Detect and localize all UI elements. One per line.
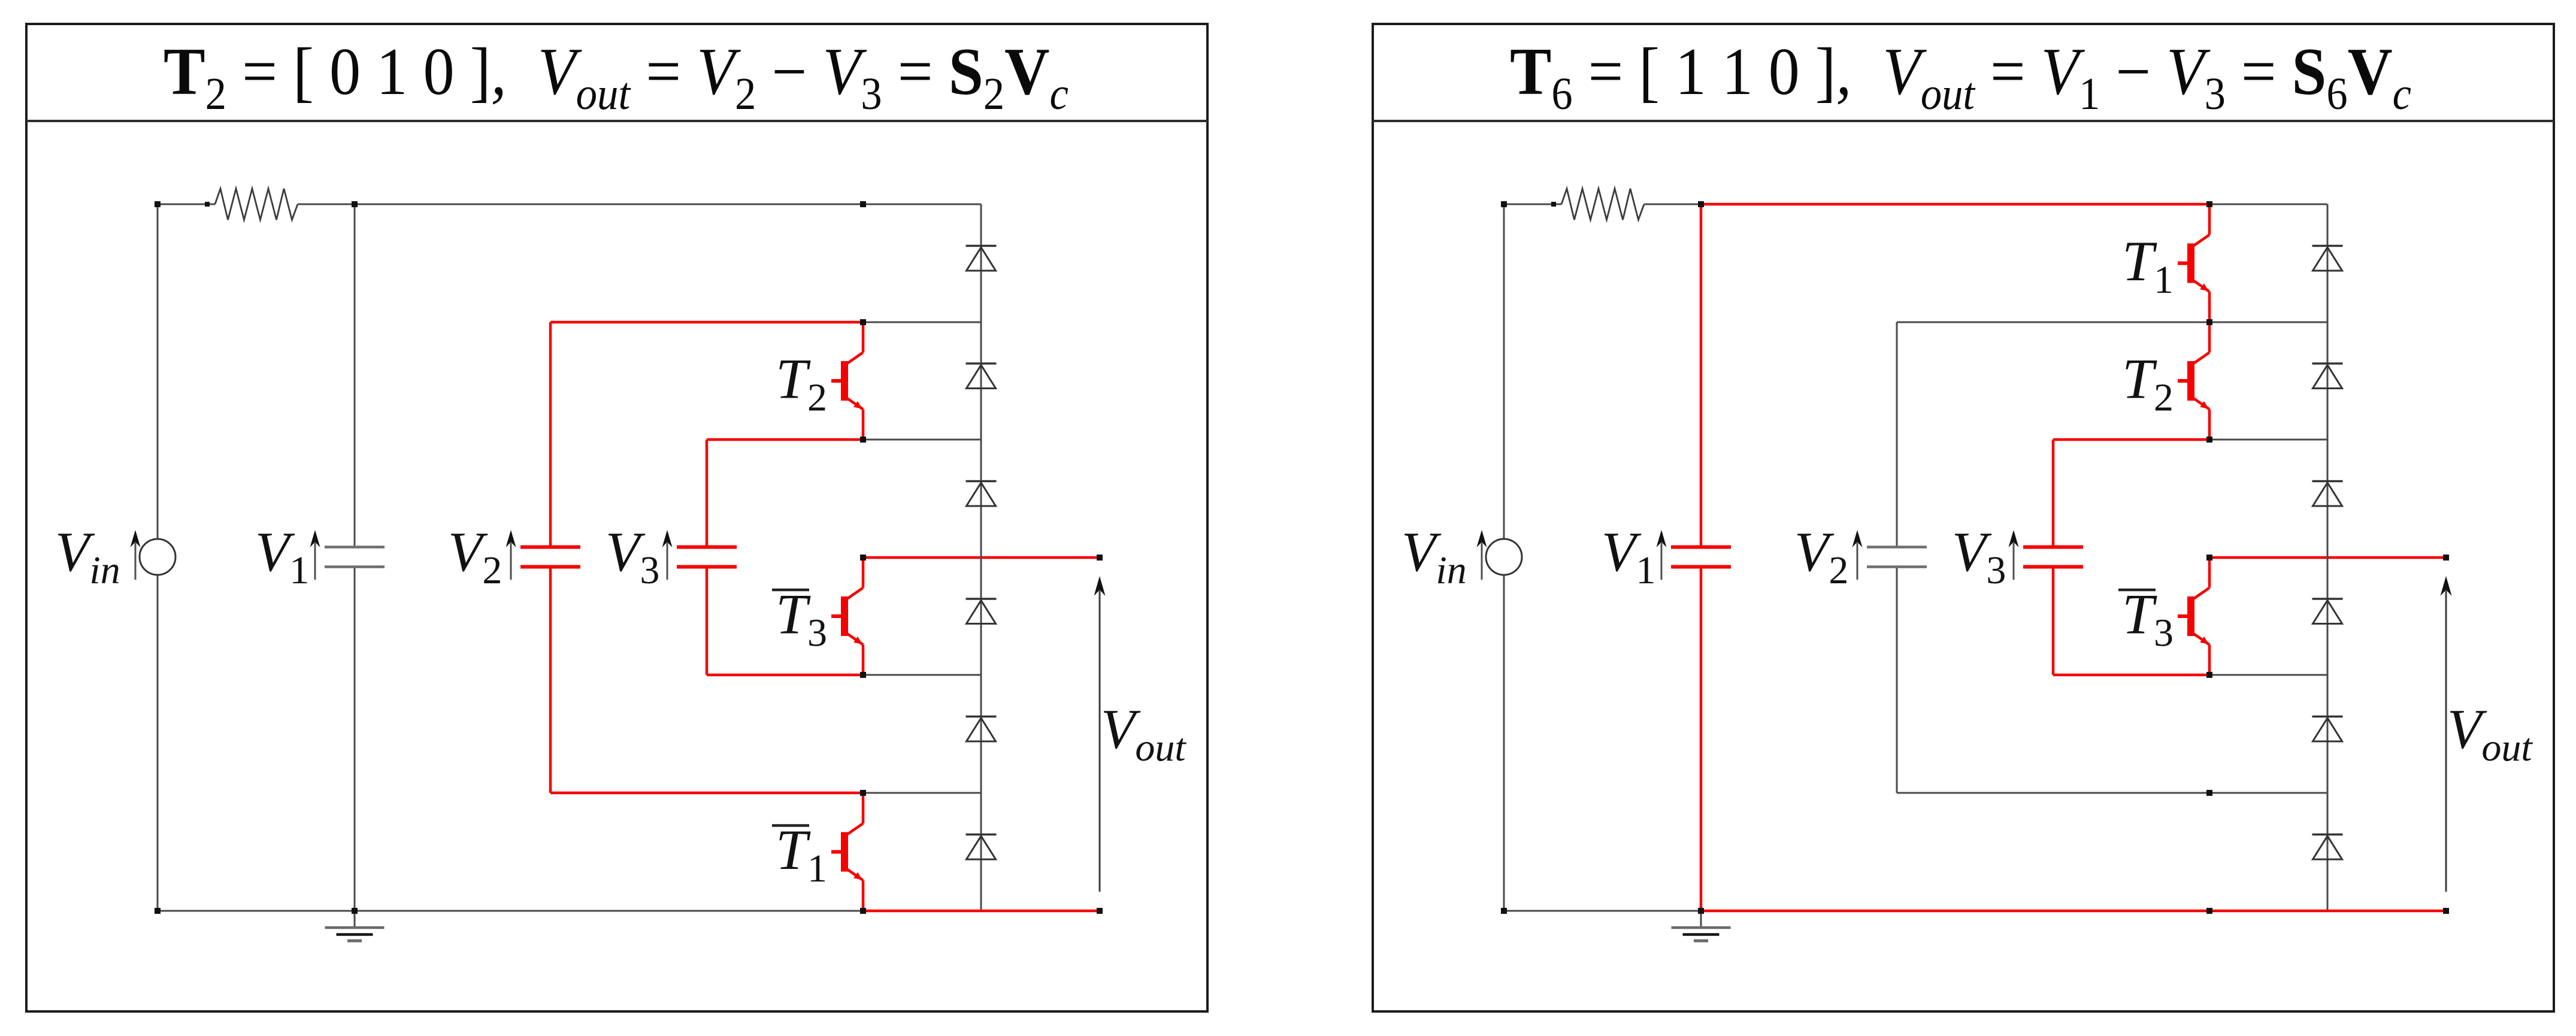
wire node row2 to diode column (right)	[2209, 439, 2327, 441]
node dot resistor lead (right)	[1551, 202, 1556, 207]
transistor T2, conducting (right)	[2178, 322, 2209, 440]
capacitor C1 / V1 (left)	[325, 547, 385, 567]
wire node row1 to diode column (left)	[863, 322, 981, 323]
svg-text:Vout: Vout	[1101, 698, 1186, 770]
wire V2 branch upper (right)	[1896, 322, 1898, 547]
label Vout (right)	[2447, 698, 2533, 770]
transistor T3-bar, conducting (left)	[831, 558, 863, 675]
ground (left)	[325, 911, 385, 941]
svg-text:T6 = [ 1 1 0 ], Vout = V1 − V3: T6 = [ 1 1 0 ], Vout = V1 − V3 = S6Vc	[1510, 35, 2411, 119]
label V3 with arrow (right)	[1952, 521, 2006, 592]
node dot ground (right)	[1698, 908, 1704, 914]
svg-text:T3: T3	[2122, 583, 2174, 655]
node dot V1 top (left)	[352, 201, 358, 207]
svg-text:V1: V1	[1602, 521, 1655, 592]
resistor on top bus (right)	[1561, 189, 1644, 220]
transistor T1-bar, conducting (left)	[831, 793, 863, 911]
wire Vin branch lower (left)	[157, 575, 159, 911]
svg-text:T2: T2	[776, 347, 827, 420]
wire Vin branch lower (right)	[1503, 575, 1505, 911]
wire V2 bottom horizontal to T-bar1 collector node (left)	[550, 792, 863, 795]
svg-text:Vout: Vout	[2447, 698, 2533, 770]
output arrow Vout (right)	[2441, 576, 2452, 892]
svg-text:V1: V1	[255, 521, 309, 592]
label Vout (left)	[1101, 698, 1186, 770]
diode D6 (left)	[966, 835, 997, 860]
output arrow Vout (left)	[1094, 576, 1106, 892]
label T1-bar (left)	[772, 818, 827, 890]
diode D1 (right)	[2312, 246, 2343, 271]
node dot Vout top (left)	[1097, 555, 1103, 561]
wire node row4 to diode column (left)	[863, 674, 981, 676]
diode D3 (right)	[2312, 481, 2343, 507]
wire node row2 to diode column (left)	[863, 439, 981, 441]
svg-text:V2: V2	[1794, 521, 1848, 592]
wire bottom bus conducting part (right)	[1701, 910, 2446, 913]
label T2 (left)	[776, 347, 827, 420]
wire V2 branch lower (left)	[549, 567, 552, 793]
capacitor C3 / V3 (right)	[2023, 547, 2083, 567]
node dot row1 (left)	[860, 319, 866, 325]
diode D2 (right)	[2312, 363, 2343, 389]
outer frame (right panel)	[1373, 24, 2554, 1011]
diode D2 (left)	[966, 363, 997, 389]
wire top bus T1 node to diode column (right)	[2209, 204, 2327, 205]
node dot T column top (left)	[860, 201, 866, 207]
svg-text:V3: V3	[606, 521, 659, 592]
wire bottom bus black part (left)	[158, 910, 863, 912]
svg-text:T3: T3	[776, 583, 827, 655]
wire V3 branch lower (left)	[706, 567, 709, 675]
wire bottom bus black part (right)	[1504, 910, 1701, 912]
node dot row3 (right)	[2206, 555, 2212, 561]
node dot Vin top (left)	[155, 201, 161, 207]
label T1 (right)	[2122, 229, 2174, 302]
svg-text:T1: T1	[2122, 229, 2174, 302]
svg-text:Vin: Vin	[55, 521, 120, 592]
wire V3 branch lower (right)	[2052, 567, 2055, 675]
voltage source Vin (left)	[140, 539, 175, 575]
node dot Vout bottom (left)	[1097, 908, 1103, 914]
node dot T column top (right)	[2206, 201, 2212, 207]
title equation (right panel)	[1510, 35, 2411, 119]
node dot resistor lead (left)	[205, 202, 210, 207]
label T2 (right)	[2122, 347, 2174, 420]
wire top bus V1 node to T1 collector, conducting (right)	[1701, 203, 2209, 206]
wire V3 top horizontal to node row2 (left)	[707, 438, 863, 441]
transistor T3-bar, conducting (right)	[2178, 558, 2209, 675]
wire V3 bottom horizontal to node row4 (right)	[2053, 674, 2209, 677]
node dot Vout bottom (right)	[2443, 908, 2449, 914]
wire V1 branch upper (left)	[354, 204, 356, 547]
title equation (left panel)	[164, 35, 1068, 119]
node dot row2 (left)	[860, 437, 866, 443]
wire Vin branch upper (right)	[1503, 204, 1505, 539]
diode D5 (right)	[2312, 717, 2343, 742]
wire V1 branch lower (left)	[354, 567, 356, 911]
diode D4 (left)	[966, 599, 997, 624]
node dot row5 (right)	[2206, 790, 2212, 796]
diode column (right)	[2327, 204, 2329, 911]
node dot T column bottom (right)	[2206, 908, 2212, 914]
wire V1 branch lower (right)	[1700, 567, 1703, 911]
wire V3 branch upper (left)	[706, 440, 709, 547]
node dot row1 (right)	[2206, 319, 2212, 325]
title separator line (right panel)	[1373, 120, 2554, 122]
wire Vin branch upper (left)	[157, 204, 159, 539]
wire top bus from Vin to resistor (left)	[158, 204, 215, 205]
node dot Vout top (right)	[2443, 555, 2449, 561]
node dot Vin top (right)	[1501, 201, 1507, 207]
wire V2 top horizontal to node row1 (right)	[1897, 322, 2209, 323]
outer frame (left panel)	[26, 24, 1207, 1011]
node dot ground (left)	[352, 908, 358, 914]
label T3-bar (right)	[2118, 583, 2174, 655]
label T3-bar (left)	[772, 583, 827, 655]
label Vin with arrow (right)	[1401, 521, 1467, 592]
wire V2 bottom horizontal to diode column (right)	[1897, 792, 2327, 794]
node dot row2 (right)	[2206, 437, 2212, 443]
wire node row5 to diode column (left)	[863, 792, 981, 794]
label V2 with arrow (right)	[1794, 521, 1848, 592]
wire top bus resistor to diode column (left)	[298, 204, 981, 205]
transistor T2, conducting (left)	[831, 322, 863, 440]
node dot row4 (left)	[860, 672, 866, 678]
wire V2 top horizontal to node row1 (left)	[550, 321, 863, 324]
node dot T column bottom (left)	[860, 908, 866, 914]
label V2 with arrow (left)	[448, 521, 502, 592]
svg-text:T2: T2	[2122, 347, 2174, 420]
resistor on top bus (left)	[215, 189, 298, 220]
wire Vout top, conducting (right)	[2209, 556, 2446, 559]
capacitor C3 / V3 (left)	[677, 547, 737, 567]
voltage source Vin (right)	[1486, 539, 1522, 575]
wire V2 branch upper (left)	[549, 322, 552, 547]
node dot row3 (left)	[860, 555, 866, 561]
capacitor C1 / V1 (right)	[1671, 547, 1731, 567]
wire bottom bus conducting part (left)	[863, 910, 1100, 913]
diode D5 (left)	[966, 717, 997, 742]
wire top bus resistor to V1 node (right)	[1644, 204, 1701, 205]
capacitor C2 / V2 (right)	[1867, 547, 1927, 567]
label V1 with arrow (left)	[255, 521, 309, 592]
wire V1 branch upper (right)	[1700, 204, 1703, 547]
wire top bus from Vin to resistor (right)	[1504, 204, 1561, 205]
wire V3 bottom horizontal to node row4 (left)	[707, 674, 863, 677]
diode D3 (left)	[966, 481, 997, 507]
svg-text:T1: T1	[776, 818, 827, 890]
node dot Vin bottom (right)	[1501, 908, 1507, 914]
wire node row4 to diode column (right)	[2209, 674, 2327, 676]
wire V3 branch upper (right)	[2052, 440, 2055, 547]
node dot row5 (left)	[860, 790, 866, 796]
wire node row1 to diode column (right)	[2209, 322, 2327, 323]
ground (right)	[1672, 911, 1731, 941]
svg-text:Vin: Vin	[1401, 521, 1467, 592]
wire V3 top horizontal to node row2 (right)	[2053, 438, 2209, 441]
wire Vout top, conducting (left)	[863, 556, 1100, 559]
capacitor C2 / V2 (left)	[520, 547, 580, 567]
label V3 with arrow (left)	[606, 521, 659, 592]
transistor T1, conducting (right)	[2178, 204, 2209, 322]
svg-text:V3: V3	[1952, 521, 2006, 592]
wire V2 branch lower (right)	[1896, 567, 1898, 793]
node dot V1 top (right)	[1698, 201, 1704, 207]
diode D6 (right)	[2312, 835, 2343, 860]
node dot row4 (right)	[2206, 672, 2212, 678]
node dot Vin bottom (left)	[155, 908, 161, 914]
diode D4 (right)	[2312, 599, 2343, 624]
svg-text:T2 = [ 0 1 0 ], Vout = V2 − V3: T2 = [ 0 1 0 ], Vout = V2 − V3 = S2Vc	[164, 35, 1068, 119]
label V1 with arrow (right)	[1602, 521, 1655, 592]
diode column (left)	[980, 204, 982, 911]
label Vin with arrow (left)	[55, 521, 120, 592]
svg-text:V2: V2	[448, 521, 502, 592]
title separator line (left panel)	[26, 120, 1207, 122]
diode D1 (left)	[966, 246, 997, 271]
